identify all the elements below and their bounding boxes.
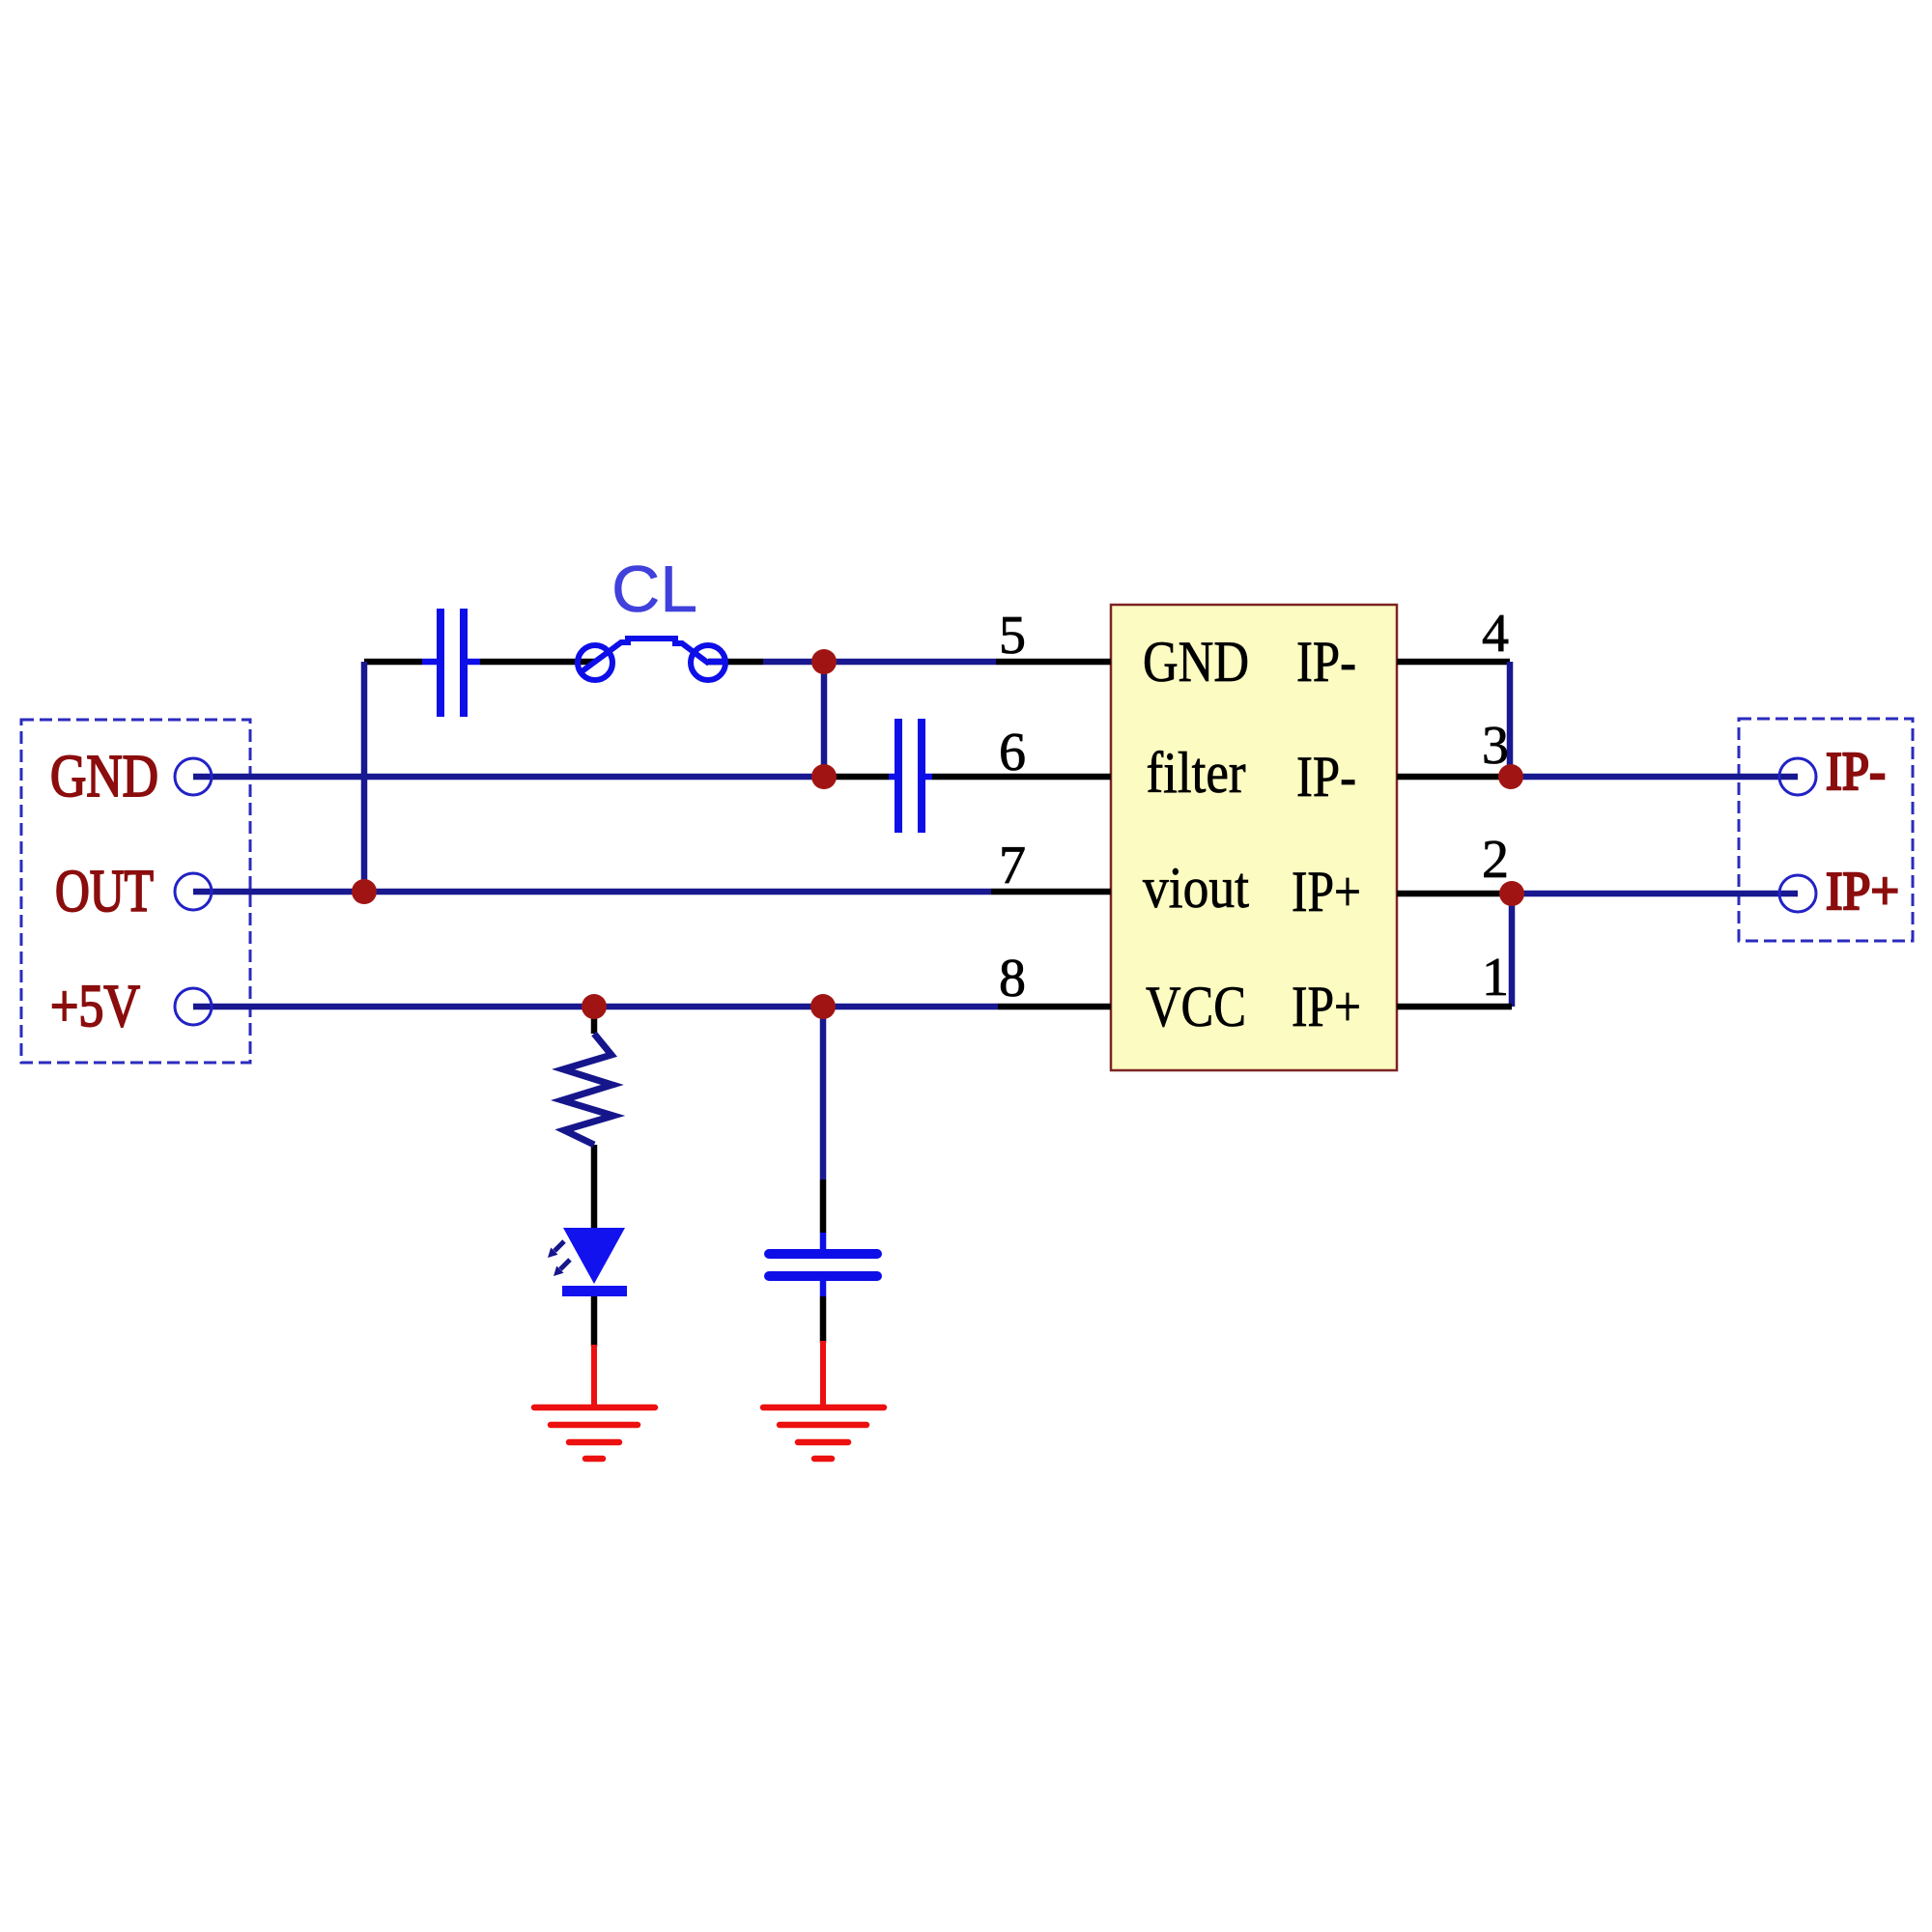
- svg-text:viout: viout: [1143, 856, 1249, 920]
- svg-text:4: 4: [1482, 604, 1509, 664]
- svg-text:IP-: IP-: [1296, 630, 1356, 694]
- svg-text:2: 2: [1482, 830, 1509, 890]
- svg-text:GND: GND: [1143, 630, 1249, 694]
- svg-text:IP+: IP+: [1292, 975, 1361, 1038]
- svg-text:GND: GND: [50, 744, 158, 810]
- svg-text:3: 3: [1482, 716, 1509, 776]
- svg-text:IP+: IP+: [1826, 862, 1899, 922]
- svg-text:1: 1: [1482, 948, 1509, 1008]
- svg-text:IP+: IP+: [1292, 860, 1361, 923]
- svg-text:IP-: IP-: [1296, 745, 1356, 809]
- svg-text:6: 6: [999, 723, 1026, 782]
- svg-text:+5V: +5V: [50, 974, 140, 1039]
- svg-text:7: 7: [999, 836, 1026, 895]
- svg-text:filter: filter: [1147, 741, 1246, 805]
- svg-text:CL: CL: [611, 553, 697, 626]
- svg-text:OUT: OUT: [55, 859, 154, 924]
- svg-text:8: 8: [999, 949, 1026, 1009]
- svg-text:5: 5: [999, 606, 1026, 666]
- svg-text:IP-: IP-: [1826, 742, 1886, 802]
- svg-text:VCC: VCC: [1146, 975, 1246, 1038]
